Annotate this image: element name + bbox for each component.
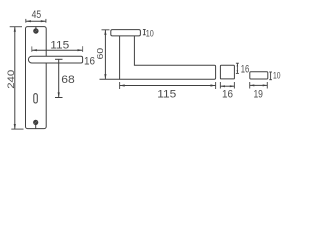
dim 240 <box>10 27 24 129</box>
svg-text:16: 16 <box>241 63 250 75</box>
svg-text:60: 60 <box>96 47 105 59</box>
dim 60 <box>102 29 110 31</box>
svg-text:115: 115 <box>157 89 176 101</box>
keyhole <box>34 94 38 103</box>
svg-text:16: 16 <box>84 56 95 68</box>
svg-text:19: 19 <box>253 88 263 100</box>
handle side view neck and arm <box>120 36 216 79</box>
tick 10 right of neck section <box>269 72 272 80</box>
svg-text:115: 115 <box>50 39 69 51</box>
lever handle front view <box>28 56 82 63</box>
handle side view grip <box>111 30 141 36</box>
dim 68 <box>55 58 63 60</box>
dim 16 below square <box>220 82 234 89</box>
svg-text:16: 16 <box>222 88 233 100</box>
svg-text:68: 68 <box>61 74 75 86</box>
dim 45 <box>26 19 46 23</box>
neck section 19x10 <box>250 72 268 79</box>
top screw <box>35 27 37 29</box>
svg-text:10: 10 <box>273 70 281 80</box>
dim 115 side <box>120 82 216 89</box>
dim 19 <box>250 82 268 89</box>
svg-text:10: 10 <box>146 28 154 38</box>
dim 115 front <box>32 46 83 52</box>
backplate front view <box>26 27 47 129</box>
tick 10 side <box>143 30 146 35</box>
bottom screw <box>35 125 37 129</box>
svg-text:240: 240 <box>6 70 16 89</box>
square grip section 16x16 <box>220 65 234 79</box>
tick 16 right of square <box>236 63 239 73</box>
svg-text:45: 45 <box>32 9 42 21</box>
